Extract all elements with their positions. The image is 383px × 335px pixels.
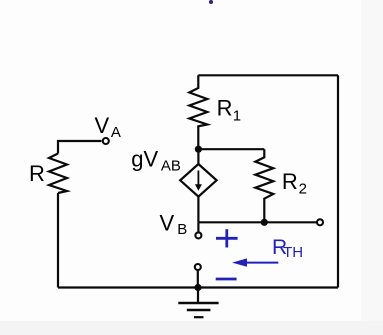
wire left (VA lead, corner, down to bottom rail with R gap)	[58, 141, 102, 288]
node junction dot below R1	[195, 146, 202, 153]
resistor R2	[255, 149, 307, 222]
wire diamond bottom to VB node	[197, 197, 199, 223]
svg-text:AB: AB	[161, 158, 181, 175]
dependent source gVAB (diamond with down arrow)	[131, 146, 216, 196]
label minus sign	[216, 278, 237, 281]
wire top (R1 top to right rail)	[198, 74, 338, 76]
wire right rail	[337, 75, 339, 287]
wire junction to R2 top	[198, 148, 264, 150]
node output terminal (open circle right)	[317, 219, 323, 225]
svg-text:V: V	[160, 211, 175, 236]
node ground-side terminal (open circle)	[195, 264, 201, 288]
resistor R	[29, 154, 67, 194]
stray mark (cropped element at top edge)	[209, 0, 213, 4]
node VB terminal	[160, 211, 202, 239]
svg-text:R: R	[217, 96, 233, 121]
arrow RTH (pointing left)	[232, 258, 278, 266]
label RTH	[272, 236, 303, 261]
label plus sign	[216, 229, 238, 247]
wire VB node to output terminal	[198, 221, 316, 223]
svg-text:V: V	[95, 113, 110, 138]
svg-text:R: R	[29, 161, 45, 186]
resistor R1	[189, 75, 241, 149]
svg-text:A: A	[111, 124, 121, 141]
wire bottom rail	[58, 286, 338, 288]
svg-text:B: B	[177, 221, 187, 238]
node VA terminal	[95, 113, 121, 144]
node junction dot R2 bottom	[261, 219, 268, 226]
ground	[178, 288, 218, 318]
node junction dot on bottom rail	[194, 284, 201, 291]
svg-text:gV: gV	[131, 146, 158, 171]
svg-text:TH: TH	[283, 244, 303, 261]
svg-text:R: R	[282, 169, 298, 194]
svg-text:2: 2	[299, 180, 307, 197]
wire junction dot to diamond top	[197, 149, 199, 164]
svg-text:1: 1	[233, 108, 241, 125]
